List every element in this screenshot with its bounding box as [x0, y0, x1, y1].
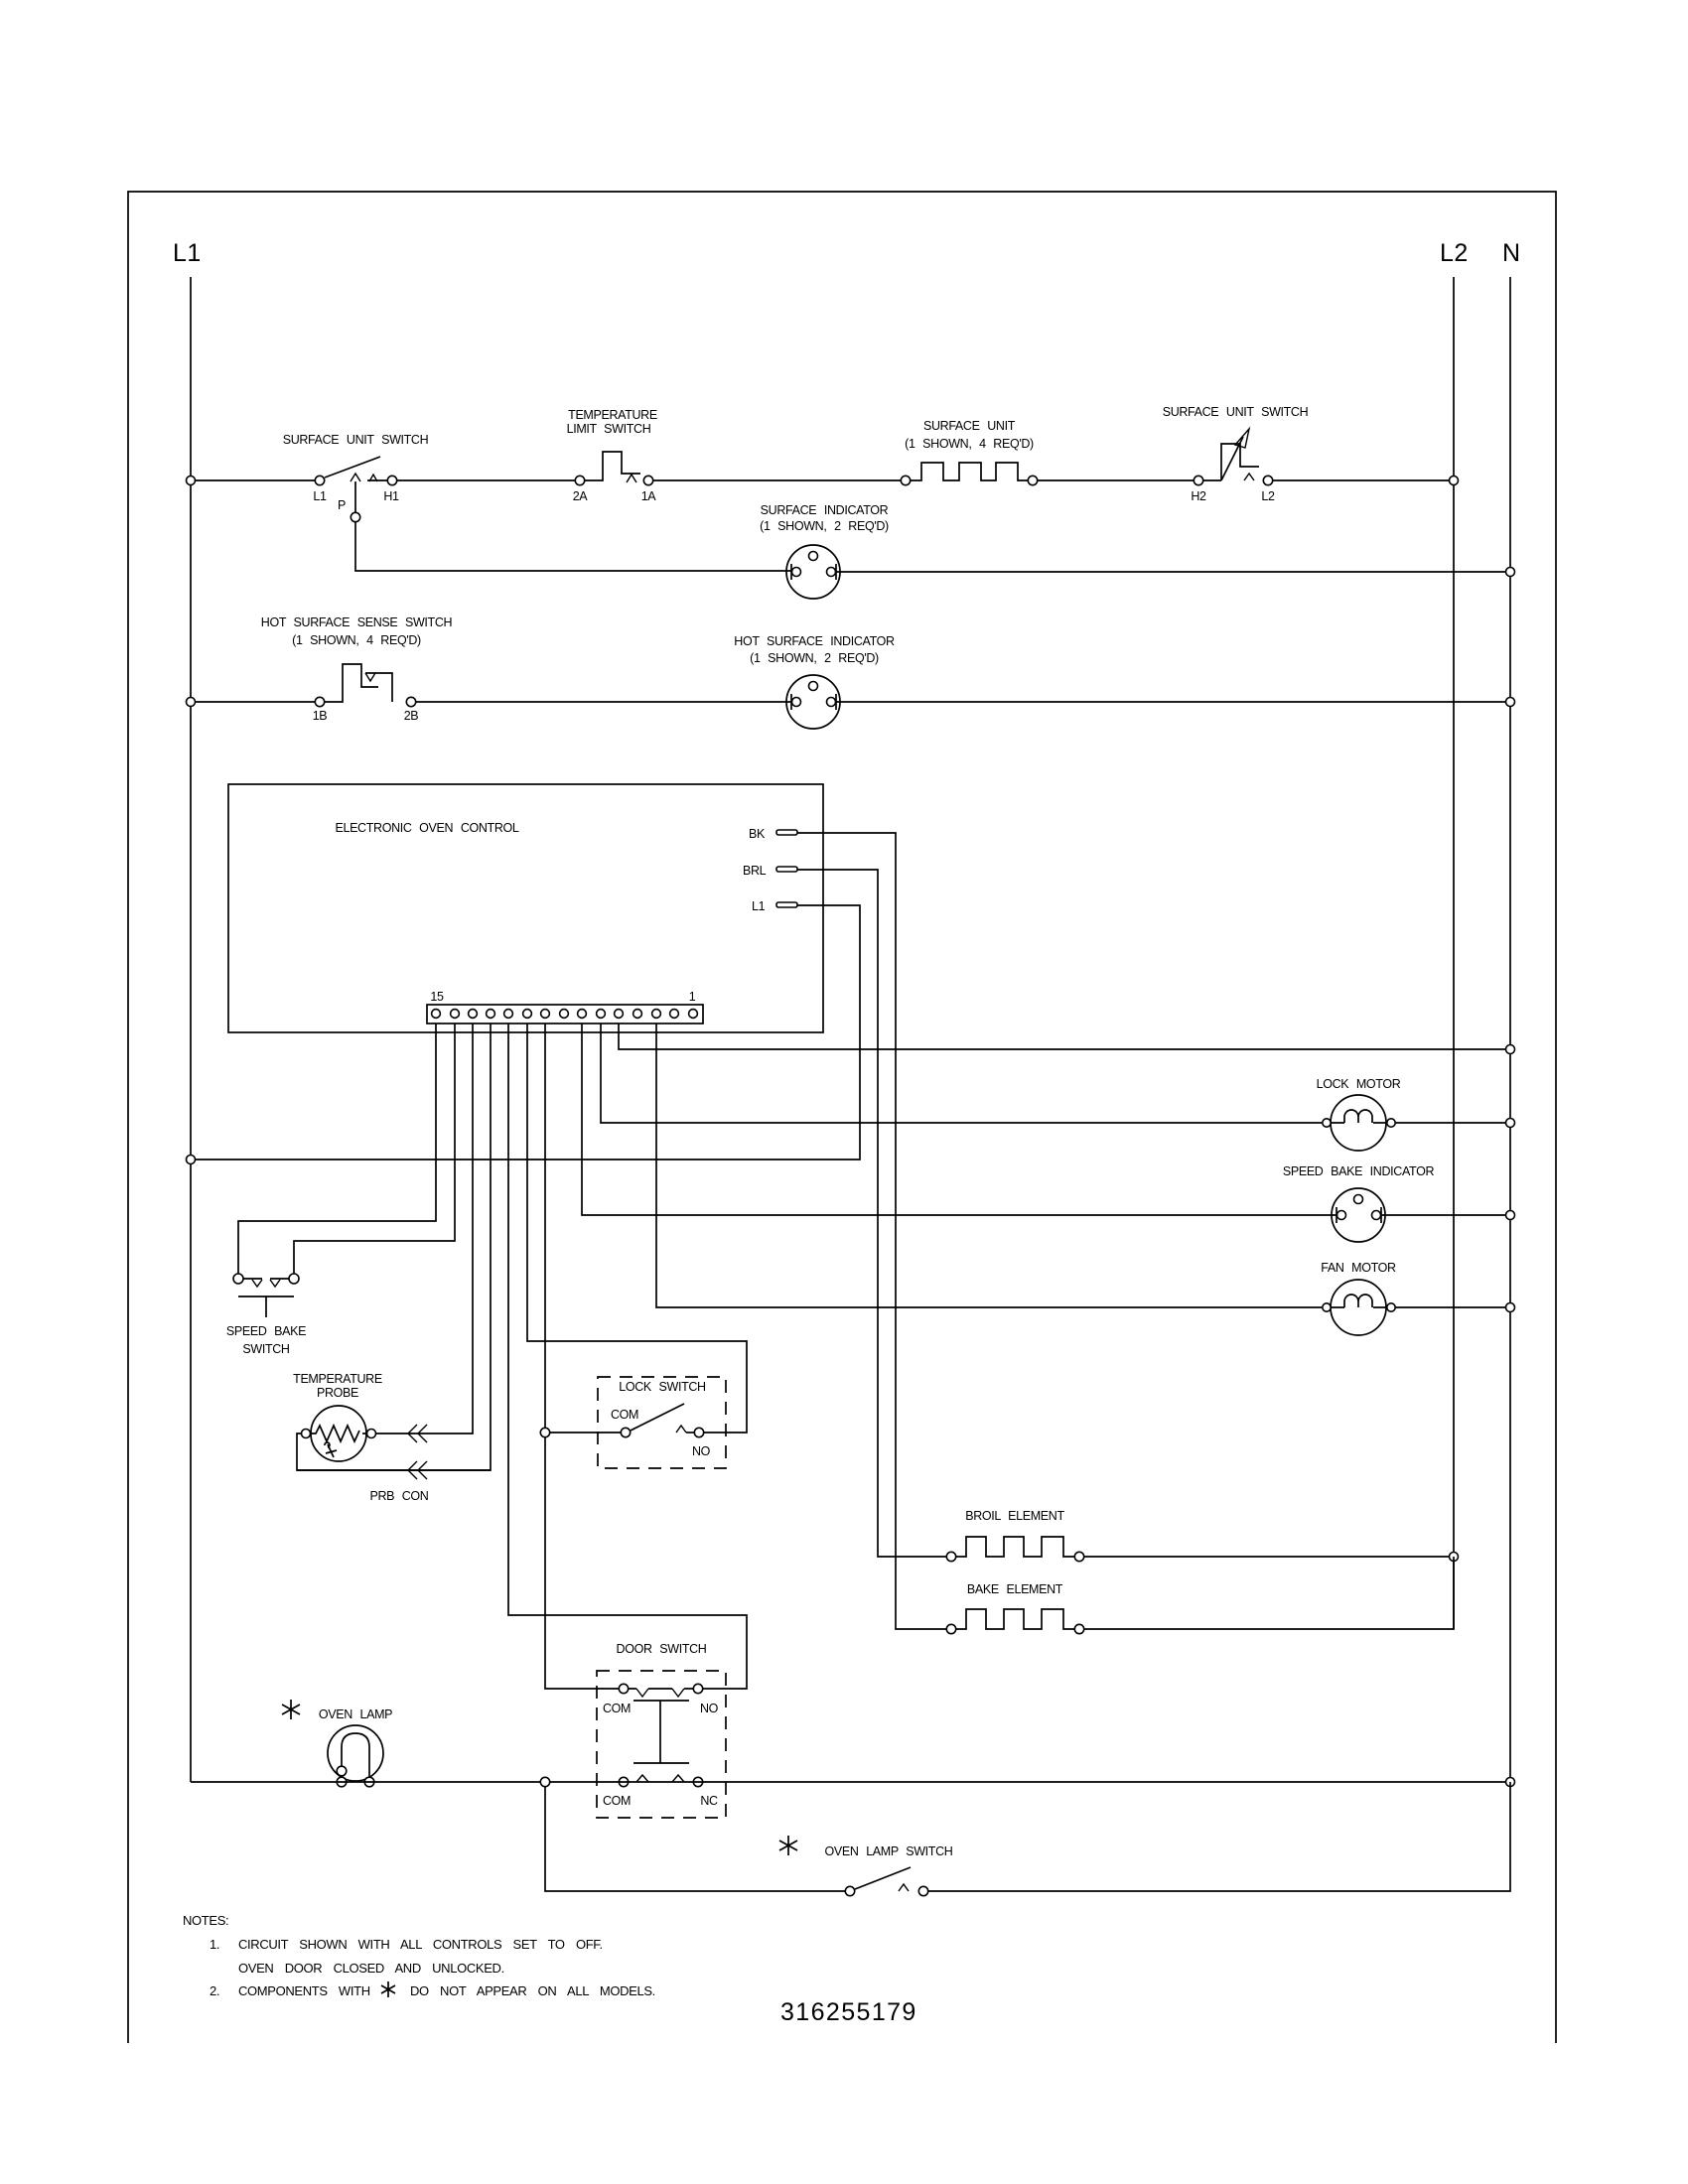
svg-text:DOOR SWITCH: DOOR SWITCH: [617, 1642, 707, 1656]
EOC connector strip P1: [427, 1005, 703, 1024]
junction N hot surface row: [1506, 698, 1515, 707]
wire fan motor to N: [1395, 1306, 1510, 1308]
speed bake switch SW3: [233, 1274, 299, 1317]
lock switch contact triangle: [676, 1426, 686, 1433]
bake element R3: [946, 1624, 955, 1633]
switch HSS body: [325, 664, 378, 702]
wire EOC L1 to L1 rail: [191, 905, 860, 1160]
wire BK to bake element: [797, 833, 946, 1629]
temperature probe RT1: [302, 1406, 376, 1461]
svg-text:DO NOT APPEAR ON ALL MODELS.: DO NOT APPEAR ON ALL MODELS.: [410, 1983, 655, 1998]
svg-text:COM: COM: [611, 1408, 638, 1422]
svg-text:HOT SURFACE INDICATOR: HOT SURFACE INDICATOR: [734, 634, 895, 648]
svg-text:1: 1: [689, 990, 696, 1004]
svg-text:H1: H1: [383, 489, 399, 503]
svg-text:SURFACE UNIT SWITCH: SURFACE UNIT SWITCH: [283, 433, 429, 447]
lock switch NO terminal: [694, 1428, 703, 1436]
wire 2B to hot surface indicator: [416, 701, 791, 703]
electronic oven control U1 box: [228, 784, 823, 1032]
wire surface indicator to N: [836, 571, 1510, 573]
junction L1 EOC row: [187, 1156, 196, 1164]
svg-text:LOCK MOTOR: LOCK MOTOR: [1317, 1077, 1401, 1091]
svg-text:1A: 1A: [641, 489, 657, 503]
svg-text:OVEN LAMP: OVEN LAMP: [319, 1707, 392, 1721]
junction bottom row to lamp switch: [540, 1777, 549, 1786]
door switch lower NC terminal: [693, 1777, 702, 1786]
svg-text:CIRCUIT SHOWN WITH ALL CONTROL: CIRCUIT SHOWN WITH ALL CONTROLS SET TO O…: [238, 1937, 603, 1952]
svg-text:PROBE: PROBE: [317, 1386, 358, 1400]
svg-text:SPEED BAKE: SPEED BAKE: [226, 1324, 306, 1338]
svg-text:BROIL ELEMENT: BROIL ELEMENT: [965, 1509, 1064, 1523]
svg-text:NO: NO: [700, 1702, 719, 1715]
switch TLS body: [585, 452, 640, 480]
svg-text:(1 SHOWN, 2 REQ'D): (1 SHOWN, 2 REQ'D): [750, 651, 879, 665]
surface indicator lamp DS1: [786, 545, 840, 599]
wire P branch: [355, 481, 791, 571]
svg-text:NC: NC: [700, 1794, 718, 1808]
wire pin15 to speed bake switch left: [238, 1024, 436, 1274]
border frame: [128, 192, 1556, 2043]
switch SW1 blade: [325, 457, 380, 478]
wire junction down to oven lamp switch: [545, 1787, 845, 1891]
wire pin11 to door switch NO: [508, 1024, 747, 1689]
switch SW2 blade arrow: [1221, 437, 1243, 480]
oven lamp asterisk: [282, 1700, 300, 1719]
switch SW1 terminal L1: [315, 476, 324, 484]
junction N pin5 row: [1506, 1045, 1515, 1054]
junction L2 broil row: [1450, 1553, 1459, 1562]
junction N bottom row: [1506, 1778, 1515, 1787]
svg-text:TEMPERATURE: TEMPERATURE: [568, 408, 657, 422]
svg-text:2.: 2.: [210, 1983, 219, 1998]
connector chevrons PRB CON top: [408, 1425, 427, 1442]
svg-text:(1 SHOWN, 2 REQ'D): (1 SHOWN, 2 REQ'D): [760, 519, 889, 533]
svg-text:2A: 2A: [573, 489, 589, 503]
wire top row: [191, 479, 315, 481]
switch HSS terminal 1B: [315, 697, 324, 706]
surface unit heating element R1: [901, 476, 910, 484]
switch HSS contact triangle: [365, 673, 375, 681]
door switch lower COM terminal: [619, 1777, 628, 1786]
svg-text:SPEED BAKE INDICATOR: SPEED BAKE INDICATOR: [1283, 1164, 1435, 1178]
switch SW1 contact triangle H1: [369, 475, 377, 481]
lock switch COM terminal: [621, 1428, 630, 1436]
switch SW1 contact triangle P: [351, 474, 360, 481]
hot surface indicator lamp DS2: [786, 675, 840, 729]
wire probe loop to pin12: [297, 1433, 491, 1470]
switch SW2 terminal L2: [1263, 476, 1272, 484]
door switch lower contact triangles: [636, 1775, 648, 1782]
wire BRL to broil element: [797, 870, 946, 1557]
junction N speed bake indicator row: [1506, 1211, 1515, 1220]
svg-text:PRB CON: PRB CON: [369, 1489, 428, 1503]
switch TLS contact triangle: [627, 475, 636, 482]
svg-text:1B: 1B: [313, 709, 328, 723]
terminal on P branch: [351, 512, 359, 521]
oven lamp DS4: [328, 1725, 383, 1787]
wire pin3 to fan motor: [656, 1024, 1322, 1307]
door switch SW5 box: [597, 1671, 726, 1818]
wire pin13 to temperature probe: [375, 1024, 473, 1433]
junction L2 top row: [1450, 477, 1459, 485]
wire L1 rail: [190, 277, 192, 1782]
wire junction to lock COM: [550, 1432, 621, 1433]
fan motor M2: [1323, 1280, 1395, 1335]
switch SW2 body: [1203, 444, 1259, 480]
svg-text:N: N: [1502, 239, 1521, 267]
svg-text:P: P: [338, 498, 346, 512]
svg-text:L2: L2: [1261, 489, 1275, 503]
switch TLS terminal 1A: [643, 476, 652, 484]
wire oven lamp switch to N: [928, 1782, 1510, 1891]
wire pin9 to lock and door switch COM: [545, 1024, 619, 1689]
door switch plunger: [633, 1701, 689, 1763]
svg-text:OVEN DOOR CLOSED AND UNLOCKED.: OVEN DOOR CLOSED AND UNLOCKED.: [238, 1961, 504, 1976]
wire pin6 to lock motor: [601, 1024, 1322, 1123]
svg-text:L1: L1: [173, 239, 202, 267]
junction N fan motor row: [1506, 1303, 1515, 1312]
switch SW2 contact triangle: [1244, 474, 1254, 480]
svg-text:SURFACE INDICATOR: SURFACE INDICATOR: [761, 503, 889, 517]
svg-text:BRL: BRL: [743, 864, 767, 878]
svg-text:H2: H2: [1191, 489, 1206, 503]
svg-text:(1 SHOWN, 4 REQ'D): (1 SHOWN, 4 REQ'D): [292, 633, 421, 647]
broil element R2: [946, 1552, 955, 1561]
wire pin7 to speed bake indicator: [582, 1024, 1336, 1215]
svg-text:BAKE ELEMENT: BAKE ELEMENT: [967, 1582, 1063, 1596]
wire pin10 to lock switch NO: [527, 1024, 747, 1433]
wire bake element to L2: [1084, 1557, 1454, 1629]
svg-text:(1 SHOWN, 4 REQ'D): (1 SHOWN, 4 REQ'D): [905, 437, 1034, 451]
switch HSS terminal 2B: [406, 697, 415, 706]
wire hot surface row: [191, 701, 315, 703]
svg-text:LIMIT SWITCH: LIMIT SWITCH: [567, 422, 651, 436]
door switch upper COM terminal: [619, 1684, 628, 1693]
oven lamp switch SW6: [845, 1886, 854, 1895]
oven lamp switch asterisk: [779, 1836, 797, 1855]
svg-text:2B: 2B: [404, 709, 419, 723]
svg-text:1.: 1.: [210, 1937, 219, 1952]
wire speed bake indicator to N: [1381, 1214, 1510, 1216]
svg-text:ELECTRONIC OVEN CONTROL: ELECTRONIC OVEN CONTROL: [335, 821, 518, 835]
svg-text:SWITCH: SWITCH: [242, 1342, 290, 1356]
wire lock motor to N: [1395, 1122, 1510, 1124]
connector chevrons PRB CON bottom: [408, 1461, 427, 1479]
switch TLS terminal 2A: [575, 476, 584, 484]
svg-text:316255179: 316255179: [780, 1998, 917, 2026]
svg-text:L1: L1: [752, 899, 766, 913]
wire L2 rail: [1453, 277, 1455, 1629]
svg-text:LOCK SWITCH: LOCK SWITCH: [619, 1380, 706, 1394]
connector pins 15 to 1: [432, 1010, 698, 1019]
svg-text:COM: COM: [603, 1702, 631, 1715]
junction L1 top row: [187, 477, 196, 485]
svg-text:COM: COM: [603, 1794, 631, 1808]
svg-text:COMPONENTS WITH: COMPONENTS WITH: [238, 1983, 370, 1998]
lock switch blade: [631, 1404, 684, 1431]
lock switch SW4 box: [598, 1377, 726, 1468]
door switch upper NO terminal: [693, 1684, 702, 1693]
svg-text:SURFACE UNIT SWITCH: SURFACE UNIT SWITCH: [1163, 405, 1309, 419]
svg-text:NOTES:: NOTES:: [183, 1913, 228, 1928]
svg-text:15: 15: [430, 990, 444, 1004]
lock motor M1: [1323, 1095, 1395, 1151]
svg-text:HOT SURFACE SENSE SWITCH: HOT SURFACE SENSE SWITCH: [261, 615, 453, 629]
svg-text:SURFACE UNIT: SURFACE UNIT: [923, 419, 1016, 433]
svg-text:OVEN LAMP SWITCH: OVEN LAMP SWITCH: [825, 1844, 953, 1858]
door switch upper contact triangles: [636, 1689, 648, 1697]
wire pin12 to probe return: [297, 1024, 491, 1470]
switch SW2 terminal H2: [1194, 476, 1202, 484]
junction N surface indicator row: [1506, 568, 1515, 577]
svg-text:TEMPERATURE: TEMPERATURE: [293, 1372, 382, 1386]
wire N rail: [1509, 277, 1511, 1782]
junction N lock motor row: [1506, 1119, 1515, 1128]
svg-text:NO: NO: [692, 1444, 711, 1458]
svg-text:BK: BK: [749, 827, 766, 841]
wire bottom row L1 to N: [191, 1781, 1510, 1783]
speed bake indicator lamp DS3: [1332, 1188, 1385, 1242]
wire pin5 to N: [619, 1024, 1510, 1049]
junction L1 hot surface row: [187, 698, 196, 707]
junction pin9 lock switch: [540, 1428, 549, 1436]
svg-text:L2: L2: [1440, 239, 1469, 267]
wire broil element to L2: [1084, 1556, 1454, 1558]
switch SW1 terminal H1: [387, 476, 396, 484]
svg-text:FAN MOTOR: FAN MOTOR: [1321, 1261, 1396, 1275]
wire pin14 to speed bake switch right: [294, 1024, 455, 1274]
svg-text:L1: L1: [313, 489, 327, 503]
wire hot surface indicator to N: [836, 701, 1510, 703]
